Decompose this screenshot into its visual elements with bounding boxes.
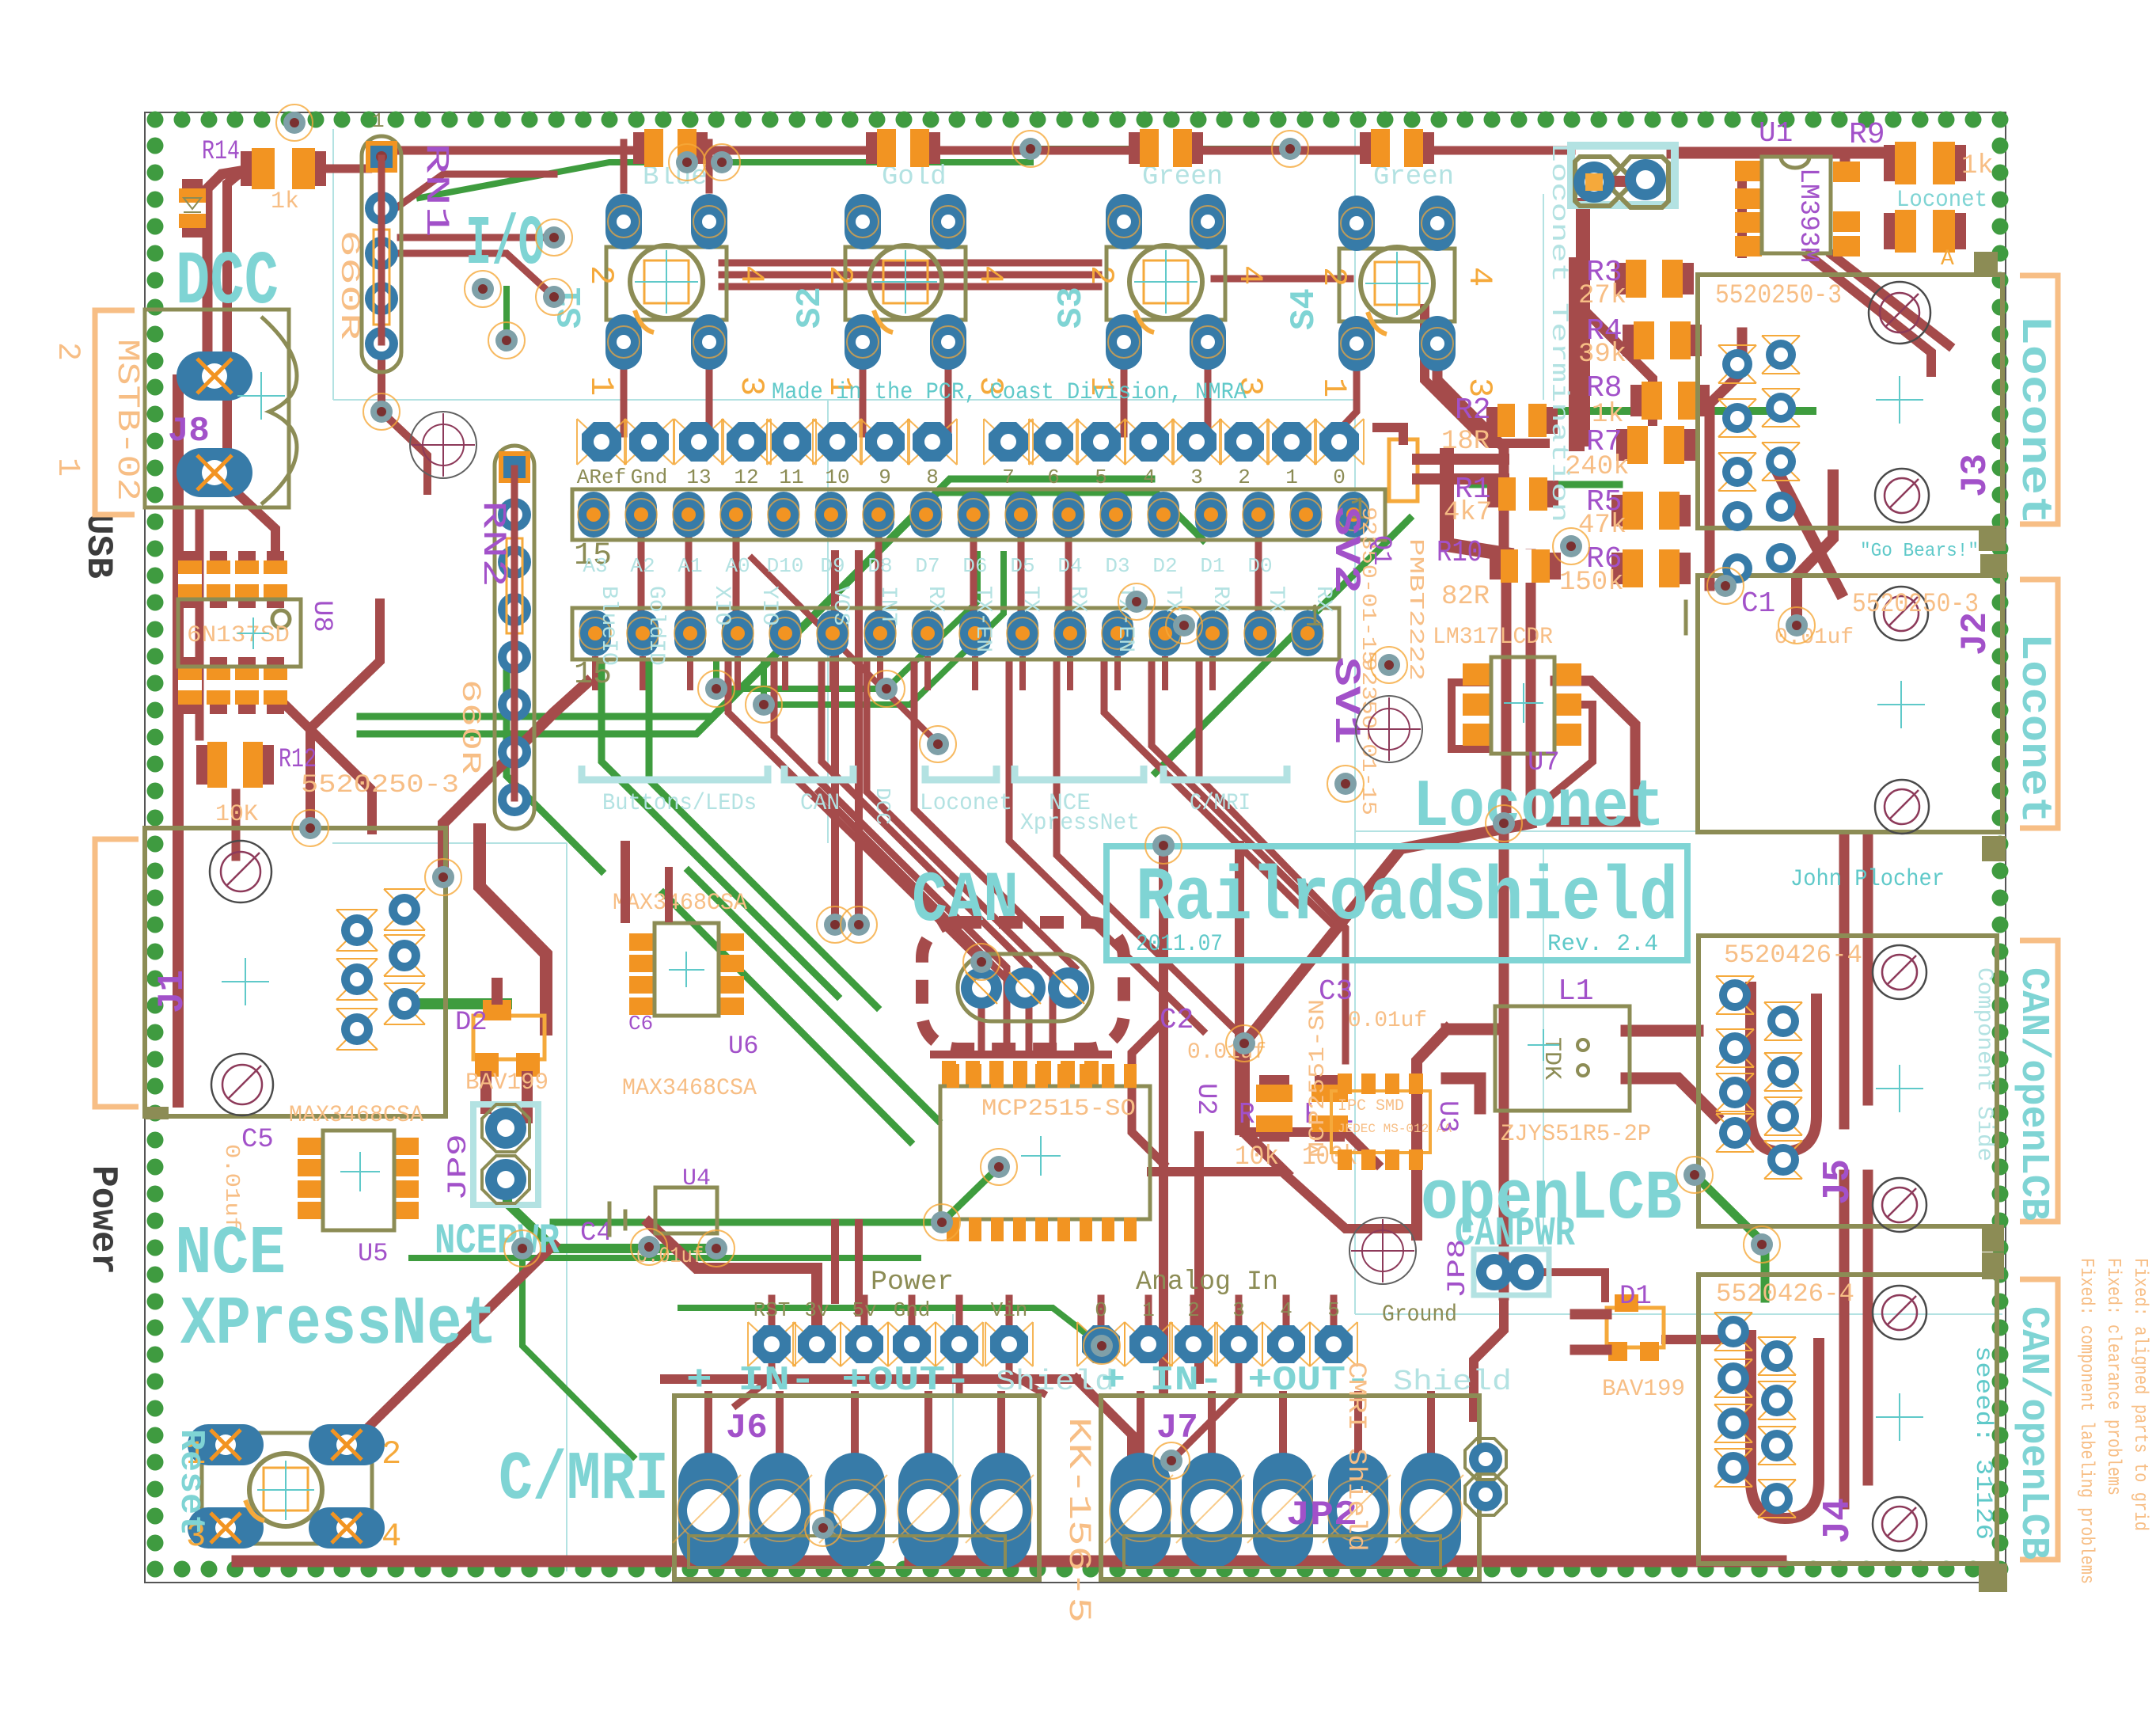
- svg-text:0: 0: [1095, 1298, 1107, 1322]
- header SV2 long pads: [572, 489, 1385, 540]
- wire DCC left rail: [173, 380, 184, 841]
- svg-text:1: 1: [582, 376, 620, 396]
- wire R stack feed 2: [1710, 332, 1742, 586]
- svg-text:Power: Power: [871, 1267, 954, 1298]
- wire SV2 risers: [638, 537, 645, 608]
- svg-text:DCC: DCC: [176, 239, 279, 325]
- svg-text:J8: J8: [168, 412, 210, 451]
- svg-text:RX: RX: [1065, 586, 1090, 613]
- svg-text:A2: A2: [630, 554, 655, 578]
- wire analog diag: [1171, 1366, 1239, 1461]
- connector J1 5520250-3: [145, 828, 446, 1116]
- svg-text:D10: D10: [767, 554, 804, 578]
- svg-text:4: 4: [1231, 265, 1269, 285]
- wire staircase L: [819, 792, 1021, 994]
- svg-text:NCEPWR: NCEPWR: [435, 1218, 560, 1266]
- connector J3 pins: [1718, 345, 1756, 383]
- diode D2 BAV199: [473, 1016, 545, 1059]
- svg-text:S3: S3: [1052, 287, 1091, 329]
- resistor R4: [1623, 325, 1702, 356]
- svg-text:RX: RX: [1311, 586, 1335, 613]
- svg-text:U2: U2: [1190, 1083, 1220, 1115]
- svg-text:GoldID: GoldID: [643, 586, 668, 666]
- wire green diagonal bus 4: [689, 871, 938, 1120]
- svg-text:D0: D0: [1247, 554, 1272, 578]
- board outline dots top: [147, 112, 2009, 128]
- svg-text:L1: L1: [1558, 975, 1594, 1009]
- svg-text:CAN/openLCB: CAN/openLCB: [2010, 1306, 2055, 1560]
- wire J5 loop: [1751, 982, 1816, 1152]
- diode D6: [1360, 132, 1434, 164]
- svg-text:Q1: Q1: [1367, 535, 1396, 565]
- connector JP3 CAN dashed outline: [922, 922, 1124, 1049]
- wire green S2-S3 link: [722, 159, 1031, 165]
- svg-text:Shield: Shield: [1393, 1366, 1512, 1398]
- connector J1 pins: [336, 910, 378, 951]
- resistor network RN2: [495, 446, 534, 829]
- drill target 3: [1349, 1218, 1416, 1284]
- svg-text:JP9: JP9: [444, 1134, 474, 1201]
- wire U6 risers: [621, 845, 630, 918]
- svg-text:Fixed: aligned parts to grid: Fixed: aligned parts to grid: [2129, 1258, 2150, 1531]
- svg-text:TX: TX: [1018, 586, 1042, 613]
- diode D5: [633, 132, 708, 164]
- svg-text:5520426-4: 5520426-4: [1716, 1279, 1854, 1309]
- wire bottom bus left: [237, 1556, 855, 1567]
- wire J6 feeds: [704, 1395, 712, 1455]
- bracket CAN: [784, 766, 853, 780]
- jumper JP8: [1474, 1249, 1549, 1295]
- svg-text:1: 1: [372, 109, 385, 133]
- title box RailroadShield: [1106, 846, 1687, 960]
- svg-text:D8: D8: [867, 554, 892, 578]
- connector J3 5520250-3: [1698, 275, 2002, 528]
- resistor R9: [1884, 145, 1966, 181]
- svg-text:5v: 5v: [852, 1298, 876, 1322]
- diode D7: [1129, 132, 1203, 164]
- svg-text:RN1: RN1: [417, 142, 455, 237]
- header SV2 pin row: [577, 419, 626, 465]
- connector J4 bracket: [2020, 1279, 2058, 1560]
- vias: [276, 104, 313, 141]
- svg-text:92350-01-15: 92350-01-15: [1357, 657, 1380, 815]
- svg-text:U6: U6: [728, 1032, 758, 1061]
- svg-text:Loconet Termination: Loconet Termination: [1545, 142, 1572, 522]
- svg-text:3v: 3v: [804, 1298, 829, 1322]
- svg-text:Reset: Reset: [171, 1429, 211, 1536]
- wire bottom bus right: [910, 1556, 1781, 1567]
- connector J5 bracket: [2020, 940, 2058, 1222]
- svg-text:10K: 10K: [215, 801, 258, 828]
- wire L1 right stubs: [1626, 1025, 1698, 1037]
- svg-text:D1: D1: [1619, 1282, 1652, 1312]
- wire green NCEPWR feed: [507, 1184, 716, 1248]
- svg-text:ZJYS51R5-2P: ZJYS51R5-2P: [1501, 1121, 1651, 1148]
- bracket Buttons/LEDs: [582, 766, 768, 780]
- svg-text:MCP2515-SO: MCP2515-SO: [981, 1096, 1136, 1123]
- svg-text:R10: R10: [1437, 536, 1482, 570]
- wire mid bottom rail: [665, 1374, 1076, 1384]
- wire L1 drop: [1417, 1029, 1447, 1235]
- svg-text:CMRI Shield: CMRI Shield: [1342, 1362, 1371, 1552]
- wire C3 link: [1244, 1132, 1377, 1164]
- wire green staircase J: [602, 663, 837, 996]
- wire RN1 to RN2: [381, 340, 427, 491]
- wire green diagonal bus 5: [663, 893, 910, 1142]
- svg-text:Shield: Shield: [996, 1366, 1114, 1398]
- svg-text:YIO: YIO: [757, 586, 781, 625]
- connector JP3 pins: [961, 967, 1002, 1009]
- board outline dots bottom: [147, 1561, 2009, 1578]
- svg-text:XPressNet: XPressNet: [180, 1286, 497, 1363]
- svg-text:R9: R9: [1849, 118, 1885, 152]
- resistor R8: [1630, 385, 1710, 416]
- wire J2 diagonal: [1797, 475, 1833, 625]
- resistor R7: [1616, 429, 1695, 461]
- svg-text:Made in the PCR, Coast Divisio: Made in the PCR, Coast Division, NMRA: [772, 379, 1247, 406]
- svg-text:18R: 18R: [1441, 427, 1490, 457]
- svg-text:U3: U3: [1432, 1100, 1462, 1133]
- svg-text:MCP2551-SN: MCP2551-SN: [1306, 999, 1330, 1157]
- switch S4: [1339, 249, 1455, 321]
- svg-text:4: 4: [971, 265, 1009, 285]
- svg-text:0.01uf: 0.01uf: [1348, 1009, 1427, 1033]
- svg-text:C1: C1: [1741, 587, 1775, 620]
- svg-text:92350-01-15: 92350-01-15: [1357, 507, 1380, 665]
- wire analog stubs: [1098, 1298, 1105, 1324]
- svg-text:3: 3: [732, 376, 770, 396]
- svg-text:Vin: Vin: [991, 1298, 1028, 1322]
- svg-text:D7: D7: [915, 554, 939, 578]
- svg-text:Loconet: Loconet: [2010, 633, 2058, 823]
- svg-text:J4: J4: [1817, 1498, 1860, 1544]
- svg-text:4: 4: [1460, 267, 1498, 287]
- svg-text:TDK: TDK: [1538, 1037, 1565, 1080]
- wire top right bus: [1672, 147, 1895, 159]
- diode D1 BAV199: [1607, 1308, 1664, 1347]
- svg-text:0: 0: [1333, 465, 1346, 489]
- svg-text:C2: C2: [1160, 1004, 1194, 1036]
- wire MCP2515 to L1: [1152, 1172, 1417, 1229]
- wire JP8 to D1: [1538, 1272, 1605, 1298]
- svg-text:1: 1: [1315, 378, 1353, 397]
- transceiver U6 MAX3468CSA: [629, 933, 655, 951]
- terminal block J7: [1101, 1396, 1479, 1579]
- svg-text:1k: 1k: [1961, 151, 1994, 181]
- wire CMRI riser 1: [1159, 845, 1168, 1389]
- svg-text:CAN/openLCB: CAN/openLCB: [2010, 967, 2055, 1221]
- wire JP1 drop: [1576, 205, 1590, 439]
- connector J4 pins: [1714, 1313, 1752, 1351]
- svg-text:3: 3: [1232, 1298, 1245, 1322]
- svg-text:7: 7: [1002, 465, 1015, 489]
- svg-text:RN2: RN2: [474, 500, 512, 587]
- connector J5 pins: [1716, 976, 1754, 1014]
- diode D3: [182, 179, 203, 237]
- svg-text:1k: 1k: [271, 188, 299, 215]
- svg-text:240k: 240k: [1565, 452, 1630, 482]
- svg-text:U4: U4: [682, 1165, 711, 1192]
- transceiver U5 MAX3468CSA: [298, 1138, 323, 1155]
- svg-text:4: 4: [732, 265, 770, 285]
- connector J2 bracket: [2020, 579, 2058, 828]
- svg-text:C5: C5: [241, 1125, 274, 1155]
- svg-text:PMBT2222: PMBT2222: [1404, 538, 1428, 681]
- wire green analog rail: [412, 1255, 918, 1261]
- wire D1 to J4: [1666, 1335, 1751, 1344]
- svg-text:1: 1: [1285, 465, 1298, 489]
- resistor network RN1: [362, 136, 401, 372]
- svg-text:D9: D9: [820, 554, 845, 578]
- svg-text:2011.07: 2011.07: [1136, 931, 1223, 958]
- wire green S3-S4 link: [1031, 146, 1290, 152]
- inductor L1 ZJYS51R5: [1495, 1006, 1630, 1111]
- section divider lines: [332, 129, 2002, 1571]
- wire green Q1 diagonal: [1156, 519, 1410, 773]
- svg-text:4: 4: [1280, 1298, 1292, 1322]
- wire S4 to R2: [1425, 309, 1545, 443]
- svg-text:D1: D1: [1200, 554, 1224, 578]
- svg-text:10k: 10k: [1235, 1142, 1279, 1172]
- resistor R5: [1611, 495, 1691, 526]
- svg-text:R2: R2: [1455, 393, 1491, 427]
- controller U2 MCP2515-SO: [940, 1086, 1150, 1219]
- wire staircase D: [1104, 663, 1298, 904]
- wire R12 chain: [195, 513, 204, 736]
- wire CMRI riser 2: [1235, 845, 1244, 1130]
- bracket C/MRI: [1163, 766, 1287, 780]
- diode D8: [1884, 213, 1966, 249]
- wire J4 risers: [1839, 1175, 1850, 1504]
- svg-text:Gnd: Gnd: [631, 465, 668, 489]
- wire staircase F: [1199, 663, 1346, 1061]
- svg-text:Fixed: component labeling prob: Fixed: component labeling problems: [2075, 1258, 2097, 1584]
- wire S1 bus: [621, 142, 628, 190]
- wire CMRI riser 3: [1194, 1136, 1204, 1379]
- svg-text:MSTB-02: MSTB-02: [108, 339, 144, 501]
- wire staircase H: [914, 663, 1075, 967]
- board outline dots right: [1992, 138, 2009, 1552]
- terminal block J6: [674, 1396, 1039, 1579]
- svg-text:C/MRI: C/MRI: [499, 1441, 669, 1518]
- svg-text:S2: S2: [791, 287, 830, 329]
- svg-text:IPC SMD: IPC SMD: [1338, 1097, 1404, 1115]
- svg-text:J7: J7: [1156, 1408, 1198, 1448]
- svg-text:1: 1: [1142, 1298, 1155, 1322]
- switch S1: [606, 247, 727, 320]
- wire power header trunk: [649, 1223, 817, 1324]
- svg-text:D6: D6: [962, 554, 987, 578]
- jumper JP2: [1469, 1442, 1502, 1476]
- svg-text:2: 2: [381, 1435, 401, 1473]
- svg-text:5520250-3: 5520250-3: [301, 770, 459, 800]
- svg-text:LM317LCDR: LM317LCDR: [1433, 624, 1553, 651]
- svg-text:4k7: 4k7: [1444, 498, 1492, 528]
- edge keepout blocks: [1974, 252, 1998, 275]
- wire staircase K: [1057, 663, 1235, 1029]
- board outline: [145, 112, 2006, 1583]
- svg-text:A3: A3: [583, 554, 607, 578]
- svg-text:C3: C3: [1319, 975, 1353, 1008]
- resistor R12: [196, 745, 274, 785]
- wire RN1 fanout: [396, 174, 554, 208]
- svg-text:150k: 150k: [1559, 568, 1624, 598]
- wire green diagonal bus 2: [360, 492, 1203, 734]
- svg-text:RailroadShield: RailroadShield: [1136, 855, 1678, 941]
- svg-text:2: 2: [1187, 1298, 1200, 1322]
- wire R14 to RN1: [313, 160, 381, 169]
- svg-text:4: 4: [1143, 465, 1156, 489]
- wire J1 interior 2: [480, 830, 546, 1029]
- wire J4 loop: [1751, 1330, 1819, 1518]
- switch Reset: [202, 1433, 372, 1544]
- resistor R2: [1486, 407, 1558, 434]
- wire LM317 riser: [1551, 681, 1635, 822]
- bracket NCE XpressNet: [1015, 766, 1144, 780]
- svg-text:5: 5: [1095, 465, 1107, 489]
- wire J8 pad2 drop: [215, 473, 275, 558]
- comparator U1 LM393M: [1737, 170, 1747, 253]
- svg-text:Loconet: Loconet: [1413, 770, 1664, 845]
- svg-text:660R: 660R: [454, 679, 484, 774]
- wire green J5 feed: [1695, 1175, 1765, 1298]
- wire R stack feed: [1569, 265, 1585, 443]
- svg-text:Fixed: clearance problems: Fixed: clearance problems: [2102, 1258, 2124, 1495]
- svg-text:RST: RST: [753, 1298, 791, 1322]
- resistor R3: [1615, 263, 1694, 294]
- svg-text:ARef: ARef: [577, 465, 626, 489]
- wire green staircase M: [649, 663, 877, 1007]
- svg-text:9: 9: [879, 465, 891, 489]
- svg-text:INT: INT: [875, 586, 900, 625]
- svg-text:2: 2: [582, 265, 620, 285]
- wire staircase B: [774, 663, 1007, 1053]
- svg-text:Component Side: Component Side: [1972, 967, 1996, 1161]
- wire S3-S4 row: [1214, 275, 1350, 283]
- connector J8 MSTB-02 bracket: [95, 310, 135, 515]
- drill target 2: [410, 412, 476, 478]
- svg-text:J6: J6: [726, 1408, 768, 1448]
- svg-text:C/MRI: C/MRI: [1190, 790, 1251, 817]
- svg-text:USB: USB: [78, 513, 119, 579]
- wire SV1 to left drop: [443, 682, 587, 877]
- jumper JP9 NCEPWR: [473, 1104, 538, 1205]
- svg-text:S4: S4: [1285, 288, 1324, 330]
- svg-text:LM393M: LM393M: [1793, 168, 1823, 263]
- svg-text:13: 13: [686, 465, 711, 489]
- wire Q1 drop: [1447, 455, 1506, 554]
- connector J3 bracket: [2020, 275, 2058, 524]
- svg-text:C6: C6: [628, 1012, 653, 1035]
- svg-text:Ground: Ground: [1382, 1301, 1457, 1328]
- resistor R6: [1611, 553, 1691, 584]
- wire green J2 link: [1545, 407, 1812, 415]
- wire green reset link: [522, 1248, 633, 1457]
- svg-text:Rev. 2.4: Rev. 2.4: [1547, 931, 1658, 958]
- svg-text:10: 10: [825, 465, 849, 489]
- wire button drops: [621, 345, 628, 434]
- resistor R1: [1487, 481, 1558, 507]
- svg-text:2: 2: [1082, 265, 1120, 285]
- svg-text:seeed: 31126: seeed: 31126: [1969, 1346, 1996, 1540]
- svg-text:XpressNet: XpressNet: [1020, 810, 1140, 837]
- svg-text:Loconet: Loconet: [2010, 315, 2058, 525]
- svg-text:2: 2: [1238, 465, 1251, 489]
- svg-text:John Plocher: John Plocher: [1790, 866, 1945, 893]
- svg-text:Loconet: Loconet: [1896, 187, 1987, 214]
- optocoupler U8 6N137SD: [181, 551, 199, 608]
- svg-text:Gnd: Gnd: [894, 1298, 931, 1322]
- svg-text:U8: U8: [306, 600, 336, 633]
- wire green R1 link: [1472, 481, 1619, 488]
- bracket Loconet: [925, 766, 996, 780]
- svg-text:J2: J2: [1955, 612, 1996, 655]
- svg-text:2: 2: [49, 342, 85, 361]
- svg-text:8: 8: [926, 465, 939, 489]
- svg-text:1: 1: [49, 458, 85, 477]
- svg-text:"Go Bears!": "Go Bears!": [1860, 541, 1979, 562]
- svg-text:JP8: JP8: [1443, 1239, 1472, 1298]
- resistor R10: [1490, 553, 1561, 579]
- wire SV1 stubs: [592, 659, 598, 687]
- connector J5 5520426-4: [1699, 936, 1997, 1226]
- svg-text:6: 6: [1047, 465, 1060, 489]
- connector J2 pins: [1766, 492, 1796, 522]
- wire top rail: [396, 146, 641, 155]
- wire MCP risers: [831, 554, 839, 925]
- svg-text:2: 2: [1315, 267, 1353, 287]
- board outline dots left: [147, 138, 164, 1552]
- wire power drops: [956, 1326, 963, 1392]
- svg-text:CAN: CAN: [800, 790, 840, 817]
- svg-text:D5: D5: [1010, 554, 1034, 578]
- svg-text:XIO: XIO: [709, 586, 734, 625]
- wire 6N137 stubs bottom: [186, 667, 194, 703]
- wire green C4 rail: [553, 1167, 999, 1222]
- svg-text:3: 3: [1190, 465, 1203, 489]
- wire green staircase center: [716, 554, 977, 689]
- wire canpwr vertical: [1499, 823, 1509, 1295]
- wire staircase G: [867, 663, 1053, 1053]
- wire green J1 jumper: [412, 998, 507, 1009]
- regulator U7 LM317LCDR: [1463, 663, 1491, 686]
- transistor Q1 PMBT2222: [1389, 439, 1418, 501]
- svg-text:U1: U1: [1759, 117, 1793, 150]
- svg-text:BAV199: BAV199: [465, 1070, 548, 1096]
- resistor R14: [241, 151, 326, 186]
- wire U1 to J3 diag 2: [1832, 255, 1949, 345]
- svg-text:5: 5: [1327, 1298, 1340, 1322]
- svg-text:39k: 39k: [1578, 340, 1626, 370]
- svg-text:J5: J5: [1817, 1159, 1860, 1205]
- svg-text:5520426-4: 5520426-4: [1724, 940, 1862, 970]
- transceiver U3 MCP2551-SN: [1331, 1091, 1430, 1153]
- svg-text:R14: R14: [202, 137, 240, 167]
- wire green diagonal bus 3: [507, 663, 602, 871]
- wire J5 risers: [1839, 839, 1850, 1124]
- wire loconet shield diagonal: [1244, 823, 1531, 1173]
- wire J1 interior 1: [173, 841, 184, 1102]
- svg-text:5520250-3: 5520250-3: [1715, 281, 1842, 311]
- svg-text:TX: TX: [1160, 586, 1185, 613]
- svg-text:BAV199: BAV199: [1602, 1376, 1685, 1403]
- wire U8 to J1: [285, 705, 372, 830]
- svg-text:2: 2: [821, 265, 859, 285]
- wire USB diag: [310, 603, 380, 828]
- wire reset diag: [364, 1244, 554, 1431]
- svg-text:Analog In: Analog In: [1136, 1267, 1278, 1298]
- svg-text:BlueIO: BlueIO: [596, 586, 621, 666]
